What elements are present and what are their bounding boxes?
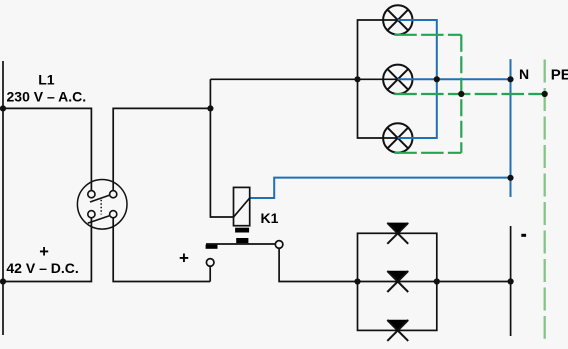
wire: lamp return to N (blue) <box>398 78 511 80</box>
contact bridge bar <box>206 243 275 245</box>
terminal: contact right <box>275 241 283 249</box>
node: junction PE main <box>542 91 548 97</box>
wire: switch top-right terminal to relay/lamp branch <box>113 108 210 190</box>
diode V3 <box>387 320 409 341</box>
wire: PE main line (light green dash vertical) <box>544 60 546 339</box>
svg-text:+: + <box>39 243 49 261</box>
label - (minus) <box>521 234 526 237</box>
wire: switch bottom-right to pushbutton <box>113 218 210 282</box>
svg-text:N: N <box>519 66 529 82</box>
node: junction diode frame left <box>354 278 360 284</box>
wire: contact left terminal drop <box>209 266 211 281</box>
node: junction at relay branch <box>207 105 213 111</box>
wire: AC line to lamp group <box>210 78 397 80</box>
wire: lamp group right bus (N, blue) <box>398 20 437 138</box>
diode group frame <box>358 233 437 330</box>
lamp E3 <box>383 123 412 152</box>
node: junction diode frame right <box>434 278 440 284</box>
wire: PE collector bus (green dashed vertical) <box>460 35 462 153</box>
wire: PE stub lamp E2 (green dashed) <box>394 93 544 95</box>
wire: L1 to switch top-left terminal <box>3 108 91 190</box>
wire: relay coil to N (blue) <box>250 178 511 198</box>
wire: switch bottom-left to DC bus <box>3 218 91 282</box>
wire: branch vertical down to relay coil K1 <box>210 79 233 217</box>
relay coil K1 <box>234 187 250 225</box>
svg-text:42 V – D.C.: 42 V – D.C. <box>6 260 78 276</box>
lamp E2 <box>383 65 412 94</box>
contact pad (left, normally open) <box>206 245 218 249</box>
svg-text:PE: PE <box>551 67 568 84</box>
relay contact actuator bar (upper) <box>235 228 249 233</box>
node: junction L1 / AC feed <box>0 105 6 111</box>
diode V1 <box>387 223 409 244</box>
wire: minus bus (right vertical) <box>510 226 512 336</box>
wire: L1 supply bus (left vertical) <box>2 61 4 335</box>
svg-text:+: + <box>179 249 189 268</box>
node: junction blue bus <box>434 76 440 82</box>
node: junction minus bus <box>508 278 514 284</box>
wire: contact right terminal to diode group <box>279 248 511 281</box>
lamp E1 <box>383 5 412 34</box>
diode V2 <box>387 271 409 292</box>
node: junction DC bus <box>0 278 6 284</box>
svg-text:L1: L1 <box>38 71 55 87</box>
svg-text:K1: K1 <box>261 210 279 226</box>
wire: lamp group left bus <box>358 20 398 138</box>
relay contact actuator bar (on contact bridge) <box>236 238 248 243</box>
node: junction PE collector <box>458 91 464 97</box>
wire: PE stub lamp E1 (green dashed) <box>394 34 461 36</box>
node: junction N / lamp return <box>507 76 513 82</box>
wire: N bus vertical (blue) <box>510 59 512 197</box>
node: junction lamp bus <box>354 76 360 82</box>
switch S1 (DPDT selector) <box>77 180 127 230</box>
node: junction N / relay return <box>507 175 513 181</box>
wire: PE stub lamp E3 (green dashed) <box>394 152 461 154</box>
terminal: contact left <box>206 259 214 267</box>
svg-text:230 V – A.C.: 230 V – A.C. <box>7 89 87 105</box>
